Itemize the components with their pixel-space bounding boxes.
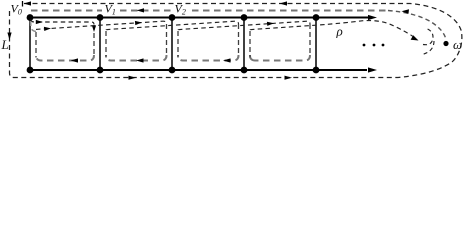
svg-text:ω: ω [453, 37, 462, 52]
arrow on exit curve [411, 35, 419, 40]
cell2 left inner vertical [105, 31, 107, 58]
arrow right cell4 upper tilted [267, 22, 274, 26]
gray spine V2-right with U-turn to omega [192, 10, 388, 12]
cell3 left inner vertical [177, 31, 179, 58]
arrow right cell1 top [36, 20, 43, 24]
node bottom 3 [169, 67, 176, 74]
tilted tour line cell3-cell4 [178, 21, 310, 30]
rung R2 [171, 18, 173, 71]
rung R1 [99, 18, 101, 71]
rung R3 [243, 18, 245, 71]
cell1 right inner vertical [93, 25, 95, 58]
cell1 left inner vertical [35, 32, 37, 58]
node top 5 [313, 14, 320, 21]
gray U-turn to omega [388, 11, 446, 40]
arrow left on top line 3 [280, 1, 288, 5]
cell4 bottom-left corner stub [250, 56, 256, 61]
svg-text:V2: V2 [175, 2, 186, 17]
arrow left cell1 bottom [71, 58, 79, 62]
svg-text:V1: V1 [105, 2, 116, 17]
cell3 right inner vertical [238, 24, 240, 58]
arrow left on spine 2 [402, 9, 410, 13]
node V2 top [169, 14, 176, 21]
svg-text:L: L [1, 37, 9, 52]
cell1 tour start from V0 [31, 20, 94, 25]
terminal bar top-left [22, 1, 24, 7]
cell2 right inner vertical [166, 24, 168, 58]
svg-text:ρ: ρ [336, 24, 343, 39]
top rail [30, 15, 377, 20]
arrow right cell1 lower tilted [44, 27, 51, 31]
arrow left cell2 bottom [136, 58, 144, 62]
arrow left on top line 1 [24, 1, 32, 5]
node bottom 2 [97, 67, 104, 74]
spiral curl upper [423, 28, 433, 45]
svg-text:V0: V0 [11, 2, 22, 17]
arrow right on bottom line 2 [285, 76, 293, 80]
cell4 left inner vertical [249, 31, 251, 58]
tilted tour line cell1-cell2 [36, 21, 167, 29]
arrow right on bottom line 1 [129, 76, 137, 80]
cell2 gray bottom edge [106, 55, 167, 61]
tilted tour line cell2-cell3 [106, 21, 239, 30]
node bottom 1 [27, 67, 34, 74]
gray spine V0-V1 [31, 10, 102, 12]
arrow left on spine 1 [137, 8, 145, 12]
arrow left cell3 bottom [223, 58, 231, 62]
tilted tour line cell4 exit curve to omega [250, 21, 415, 38]
spiral curl lower [422, 41, 434, 55]
outer dashed tour loop [10, 4, 462, 78]
arrow right cell2 upper tilted [135, 21, 142, 25]
rung R4 [315, 18, 317, 71]
node V0 top [27, 14, 34, 21]
node top 4 [241, 14, 248, 21]
arrow down on left vertical [7, 33, 11, 41]
gray spine V1-V2 [120, 10, 172, 12]
node bottom 4 [241, 67, 248, 74]
ellipsis dots [363, 44, 385, 47]
bottom rail [30, 67, 377, 72]
rung R0 [29, 18, 31, 71]
cell1 gray bottom edge [36, 55, 94, 61]
node bottom 5 [313, 67, 320, 74]
node V1 top [97, 14, 104, 21]
cell4 gray bottom edge [250, 55, 310, 61]
gray drop from node V0 into cell1 [31, 21, 36, 32]
cell4 right inner vertical [309, 24, 311, 58]
cell3 gray bottom edge [178, 55, 239, 61]
arrow down cell1 right vertical [92, 25, 96, 32]
node omega [443, 41, 448, 46]
